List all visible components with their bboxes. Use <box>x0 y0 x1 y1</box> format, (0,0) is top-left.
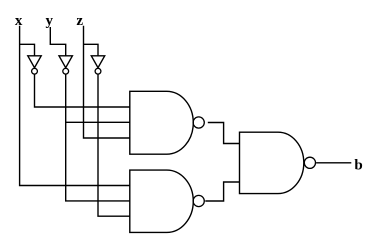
wire z vertical to NAND G1 input 3 <box>84 26 130 138</box>
wire x' to NAND G1 input 1 <box>35 74 130 107</box>
wire G3 output <box>316 162 351 164</box>
inverter U2 bubble <box>63 68 69 74</box>
wire y' continuation to NAND G2 input 2 <box>66 122 130 201</box>
svg-text:y: y <box>45 13 53 29</box>
wire z branch to inverter U3 <box>84 44 99 56</box>
wire y' to NAND G1 input 2 <box>66 74 130 122</box>
NAND gate G2 body <box>130 170 193 232</box>
NAND gate G2 bubble <box>193 195 204 206</box>
inverter U3 triangle <box>91 56 104 68</box>
inverter U3 bubble <box>95 68 101 74</box>
NAND gate G1 body <box>130 91 193 154</box>
wire G2 output to NAND G3 input 2 <box>205 182 239 201</box>
inverter U2 triangle <box>59 56 72 68</box>
NAND gate G3 body <box>240 132 304 193</box>
wire y vertical to inverter U2 <box>50 27 65 56</box>
wire G1 output to NAND G3 input 1 <box>208 123 240 144</box>
inverter U1 triangle <box>28 56 41 68</box>
NAND gate G1 bubble <box>193 117 204 128</box>
svg-text:z: z <box>76 13 83 29</box>
wire z' to NAND G2 input 3 <box>98 74 130 216</box>
inverter U1 bubble <box>32 68 38 74</box>
wire x vertical to NAND G2 input 1 <box>20 26 130 186</box>
svg-text:x: x <box>15 13 23 29</box>
NAND gate G3 bubble <box>304 157 315 168</box>
svg-text:b: b <box>354 158 362 174</box>
wire x branch to inverter U1 <box>20 44 35 56</box>
